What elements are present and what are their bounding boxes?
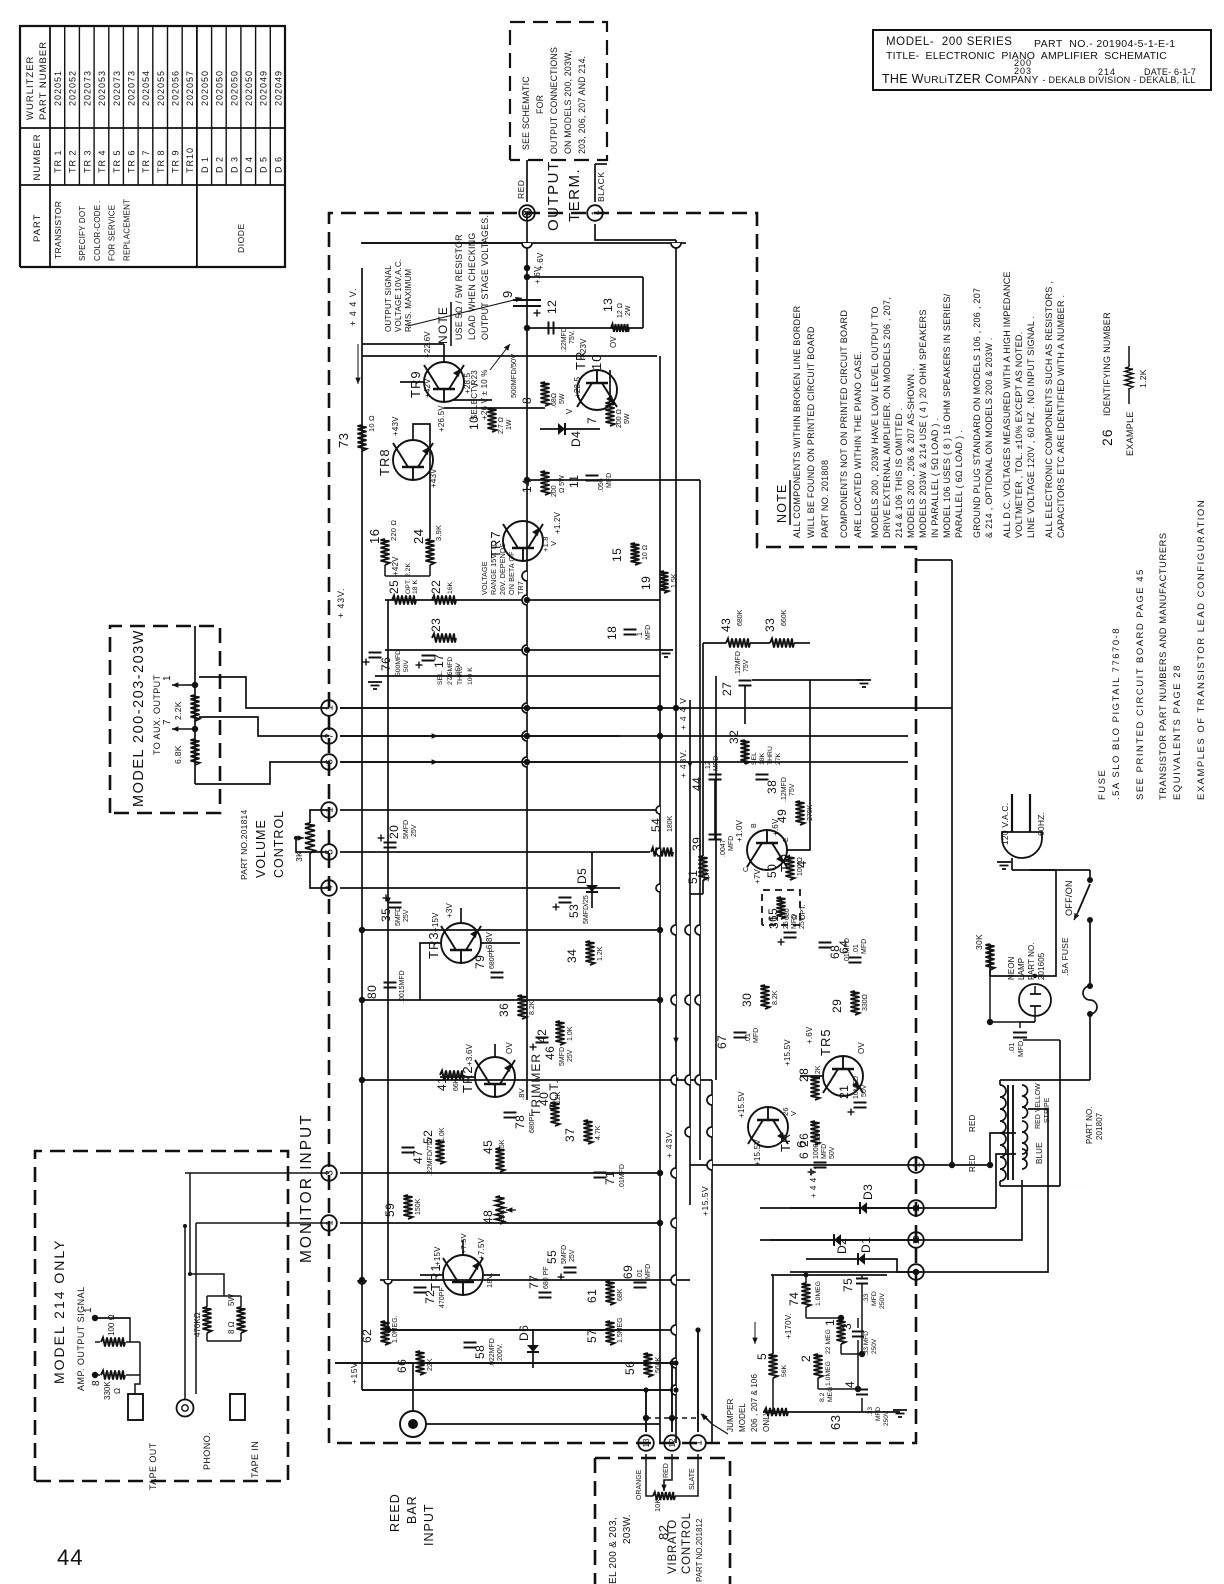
svg-text:.8V: .8V xyxy=(517,1088,526,1100)
svg-text:D1: D1 xyxy=(859,1237,873,1253)
svg-text:TAPE IN: TAPE IN xyxy=(250,1441,260,1478)
svg-text:23: 23 xyxy=(429,618,443,632)
svg-text:V: V xyxy=(471,382,480,388)
svg-text:1: 1 xyxy=(694,1440,705,1446)
svg-text:202073: 202073 xyxy=(127,70,137,106)
svg-text:8.2K: 8.2K xyxy=(529,1000,536,1015)
svg-text:25MFD: 25MFD xyxy=(447,657,454,679)
svg-text:+7.5V: +7.5V xyxy=(477,1237,486,1260)
svg-text:1.0MEG: 1.0MEG xyxy=(825,1361,832,1386)
svg-text:WURLITZER: WURLITZER xyxy=(25,56,36,120)
svg-text:+15.5V: +15.5V xyxy=(700,1186,710,1216)
svg-text:75V: 75V xyxy=(789,783,796,796)
svg-text:MONITOR INPUT: MONITOR INPUT xyxy=(298,1113,315,1263)
svg-text:250V: 250V xyxy=(871,1338,878,1354)
svg-text:71: 71 xyxy=(603,1171,617,1185)
svg-text:FOR SERVICE: FOR SERVICE xyxy=(108,205,117,261)
svg-text:10K: 10K xyxy=(653,1499,662,1512)
svg-text:COLOR-CODE .: COLOR-CODE . xyxy=(93,200,102,261)
svg-text:OUTPUT: OUTPUT xyxy=(545,160,562,231)
svg-text:TRANSISTOR PART NUMBERS AND: TRANSISTOR PART NUMBERS AND MANUFACTURER… xyxy=(1158,532,1168,800)
svg-text:1: 1 xyxy=(162,675,173,681)
svg-text:330Ω: 330Ω xyxy=(862,994,869,1011)
svg-text:52: 52 xyxy=(421,1130,435,1144)
svg-text:4: 4 xyxy=(843,1381,857,1388)
svg-text:RANGE 15V. TO: RANGE 15V. TO xyxy=(489,540,498,595)
svg-text:MFD: MFD xyxy=(1016,1040,1025,1057)
svg-text:15K: 15K xyxy=(499,1139,506,1152)
svg-text:EL 200 & 203,: EL 200 & 203, xyxy=(608,1517,619,1584)
svg-text:TR 3: TR 3 xyxy=(82,149,92,173)
svg-text:202073: 202073 xyxy=(112,70,122,106)
svg-text:76: 76 xyxy=(379,657,393,671)
svg-text:202049: 202049 xyxy=(273,70,283,106)
svg-text:+42V: +42V xyxy=(423,378,432,398)
svg-text:ALL ELECTRONIC COMPONENTS S: ALL ELECTRONIC COMPONENTS SUCH AS RESIST… xyxy=(1044,281,1054,538)
svg-text:OV: OV xyxy=(609,336,618,348)
svg-text:203, 206, 207 AND 214.: 203, 206, 207 AND 214. xyxy=(577,56,587,154)
svg-text:18 K: 18 K xyxy=(412,580,419,594)
svg-text:22 MEG: 22 MEG xyxy=(825,1329,832,1354)
svg-text:27: 27 xyxy=(720,682,734,696)
svg-text:64: 64 xyxy=(837,940,851,954)
svg-text:73: 73 xyxy=(336,433,351,448)
svg-text:ON MODELS 200, 203W,: ON MODELS 200, 203W, xyxy=(563,50,573,154)
svg-text:63: 63 xyxy=(828,1415,843,1430)
svg-text:+22.6V: +22.6V xyxy=(423,331,432,358)
svg-text:9: 9 xyxy=(500,290,515,298)
svg-text:202050: 202050 xyxy=(215,70,225,106)
svg-text:202049: 202049 xyxy=(259,70,269,106)
svg-text:5W: 5W xyxy=(559,393,566,404)
svg-text:500MFD/50V: 500MFD/50V xyxy=(509,354,518,398)
svg-text:PART: PART xyxy=(32,214,43,242)
svg-text:ORANGE: ORANGE xyxy=(636,1469,643,1500)
svg-text:+.6V: +.6V xyxy=(805,1026,814,1044)
svg-text:+ 4 4 V: + 4 4 V xyxy=(678,697,688,730)
svg-text:+.6V: +.6V xyxy=(533,266,542,284)
svg-text:TR 6: TR 6 xyxy=(127,149,137,173)
svg-text:202055: 202055 xyxy=(156,70,166,106)
svg-text:+1.0V: +1.0V xyxy=(735,819,744,842)
svg-text:16: 16 xyxy=(367,529,382,544)
svg-text:7: 7 xyxy=(162,719,173,725)
svg-text:5MFD/25: 5MFD/25 xyxy=(583,895,590,924)
svg-text:MFD: MFD xyxy=(871,1291,878,1306)
svg-text:74: 74 xyxy=(787,1292,801,1306)
svg-text:1000: 1000 xyxy=(813,1143,820,1159)
svg-text:D 2: D 2 xyxy=(215,156,225,173)
svg-text:SPECIFY DOT: SPECIFY DOT xyxy=(78,206,87,261)
svg-text:25V: 25V xyxy=(567,1049,574,1062)
svg-text:TR3: TR3 xyxy=(426,931,441,959)
svg-text:TRANSISTOR: TRANSISTOR xyxy=(53,201,63,259)
svg-text:1.0K: 1.0K xyxy=(567,1026,574,1041)
svg-text:LINE VOLTAGE 120V , 60 HZ .: LINE VOLTAGE 120V , 60 HZ . NO INPUT SIG… xyxy=(1026,316,1036,538)
svg-text:220 Ω: 220 Ω xyxy=(389,520,398,541)
svg-text:PART NO.: PART NO. xyxy=(1085,1106,1094,1144)
svg-text:POT.: POT. xyxy=(547,1079,561,1110)
svg-text:CAPACITORS ETC ARE IDENTIF: CAPACITORS ETC ARE IDENTIFIED WITH A NUM… xyxy=(1056,295,1066,538)
svg-text:8 Ω: 8 Ω xyxy=(227,1321,236,1334)
svg-text:5MFD: 5MFD xyxy=(403,820,410,839)
svg-text:60HZ.: 60HZ. xyxy=(1036,812,1046,836)
svg-text:.01: .01 xyxy=(745,1033,752,1043)
svg-text:8.2K: 8.2K xyxy=(772,990,779,1005)
svg-text:25: 25 xyxy=(387,580,401,594)
svg-text:D6: D6 xyxy=(517,1325,531,1341)
svg-text:RMS. MAXIMUM: RMS. MAXIMUM xyxy=(404,269,413,332)
svg-text:VOLTMETER , TOL. ±10%: VOLTMETER , TOL. ±10% EXCEPT AS NOTED. xyxy=(1014,332,1024,538)
svg-text:VOLTAGE 10V,A.C.: VOLTAGE 10V,A.C. xyxy=(394,259,403,332)
svg-text:.33: .33 xyxy=(867,1407,874,1416)
svg-text:.01MFD: .01MFD xyxy=(619,1164,626,1189)
svg-text:1.0MEG: 1.0MEG xyxy=(815,1281,822,1306)
svg-text:OPT. 2.2K: OPT. 2.2K xyxy=(405,563,412,594)
svg-text:D 3: D 3 xyxy=(229,156,239,173)
svg-text:29: 29 xyxy=(830,999,844,1013)
svg-text:.68Ω: .68Ω xyxy=(551,393,558,408)
svg-text:RED: RED xyxy=(516,180,526,199)
svg-text:2W: 2W xyxy=(625,305,632,316)
svg-text:TERM.: TERM. xyxy=(566,168,583,222)
svg-text:120 V.A.C.: 120 V.A.C. xyxy=(1000,803,1010,845)
svg-text:75V: 75V xyxy=(743,659,750,672)
svg-text:33: 33 xyxy=(763,618,777,632)
svg-text:MEG: MEG xyxy=(827,1387,834,1402)
svg-text:36: 36 xyxy=(497,1003,511,1017)
svg-text:RED: RED xyxy=(968,1114,977,1132)
svg-text:MFD: MFD xyxy=(753,1028,760,1043)
svg-text:1.2K: 1.2K xyxy=(1138,369,1148,388)
svg-text:31: 31 xyxy=(767,915,781,929)
svg-text:67: 67 xyxy=(715,1035,729,1049)
svg-text:10K: 10K xyxy=(704,869,711,882)
svg-text:+170V.: +170V. xyxy=(784,1313,793,1339)
svg-text:ALL D.C. VOLTAGES MEASURED: ALL D.C. VOLTAGES MEASURED WITH A HIGH I… xyxy=(1002,271,1012,538)
svg-text:43: 43 xyxy=(719,618,733,632)
svg-text:.5A FUSE: .5A FUSE xyxy=(1060,937,1070,976)
svg-text:202057: 202057 xyxy=(185,70,195,106)
svg-text:WILL BE FOUND ON PRINTED: WILL BE FOUND ON PRINTED CIRCUIT BOARD xyxy=(806,326,816,538)
svg-text:.22MFD: .22MFD xyxy=(561,327,568,352)
svg-text:25V: 25V xyxy=(455,662,462,675)
svg-text:OUTPUT STAGE VOLTAGES.: OUTPUT STAGE VOLTAGES. xyxy=(480,215,490,340)
svg-text:TR5: TR5 xyxy=(818,1028,833,1056)
svg-text:100 Ω: 100 Ω xyxy=(797,857,804,876)
svg-text:12 Ω: 12 Ω xyxy=(617,303,624,318)
svg-text:ON BETA OF: ON BETA OF xyxy=(507,551,516,595)
svg-text:.1: .1 xyxy=(637,632,644,638)
svg-text:202051: 202051 xyxy=(53,70,63,106)
svg-text:17: 17 xyxy=(432,654,446,668)
svg-text:78: 78 xyxy=(513,1115,527,1129)
svg-text:18K: 18K xyxy=(759,752,766,765)
svg-text:10 Ω: 10 Ω xyxy=(642,545,649,560)
svg-text:TRIMMER: TRIMMER xyxy=(529,1053,543,1116)
svg-text:59: 59 xyxy=(383,1203,397,1217)
svg-text:200: 200 xyxy=(551,485,558,497)
svg-text:TR 1: TR 1 xyxy=(53,149,63,173)
svg-text:MODEL 200-203-203W: MODEL 200-203-203W xyxy=(131,629,147,807)
svg-text:D4: D4 xyxy=(569,431,583,447)
svg-text:BLACK: BLACK xyxy=(596,172,606,202)
svg-text:2: 2 xyxy=(799,1355,813,1362)
svg-text:MFD: MFD xyxy=(645,1264,652,1279)
svg-text:50: 50 xyxy=(765,864,779,878)
svg-text:.12MFD: .12MFD xyxy=(735,651,742,676)
svg-text:+ 4 4 V.: + 4 4 V. xyxy=(348,288,358,326)
svg-text:TR7: TR7 xyxy=(516,581,525,595)
svg-text:ARE LOCATED WITHIN THE PIA: ARE LOCATED WITHIN THE PIANO CASE. xyxy=(853,351,863,538)
svg-text:Ω: Ω xyxy=(113,1388,122,1394)
svg-text:470KΩ: 470KΩ xyxy=(193,1312,202,1337)
svg-text:30K: 30K xyxy=(974,934,984,950)
svg-text:2.2K: 2.2K xyxy=(173,701,183,720)
svg-text:22K: 22K xyxy=(427,1358,434,1371)
svg-text:44: 44 xyxy=(690,777,704,791)
svg-text:+3.6V: +3.6V xyxy=(465,1043,474,1066)
svg-text:MFD: MFD xyxy=(645,625,652,640)
svg-text:TR 5: TR 5 xyxy=(112,149,122,173)
svg-text:1.5K: 1.5K xyxy=(671,573,678,588)
svg-text:TR 8: TR 8 xyxy=(156,149,166,173)
svg-text:51: 51 xyxy=(686,870,700,884)
svg-text:EXAMPLES OF TRANSISTOR LEAD: EXAMPLES OF TRANSISTOR LEAD CONFIGURATIO… xyxy=(1196,499,1207,800)
svg-text:27K: 27K xyxy=(775,752,782,765)
svg-text:10MFD: 10MFD xyxy=(853,1076,860,1099)
svg-text:PART NO.201814: PART NO.201814 xyxy=(239,810,249,880)
svg-text:34: 34 xyxy=(565,949,579,963)
svg-text:VOLUME: VOLUME xyxy=(254,819,268,878)
svg-text:2.7 Ω: 2.7 Ω xyxy=(498,417,505,434)
svg-text:.33: .33 xyxy=(863,1293,870,1303)
svg-text:8: 8 xyxy=(91,1380,102,1386)
svg-text:MFD: MFD xyxy=(791,914,798,929)
svg-text:CONTROL: CONTROL xyxy=(272,810,286,878)
svg-text:.12MFD: .12MFD xyxy=(781,777,788,802)
svg-text:GROUND PLUG STANDARD ON MO: GROUND PLUG STANDARD ON MODELS 106 , 206… xyxy=(972,288,982,538)
svg-text:+43V: +43V xyxy=(429,468,438,488)
svg-text:REED: REED xyxy=(388,1493,402,1532)
svg-text:MFD: MFD xyxy=(821,1144,828,1159)
svg-text:E: E xyxy=(783,837,790,842)
svg-text:5MFD: 5MFD xyxy=(561,1245,568,1264)
svg-text:D5: D5 xyxy=(575,868,589,884)
svg-text:.5A SLO BLO PIGTAIL 77670-: .5A SLO BLO PIGTAIL 77670-8 xyxy=(1111,627,1122,800)
svg-text:30: 30 xyxy=(740,993,754,1007)
svg-text:25K: 25K xyxy=(499,1209,506,1222)
svg-text:26: 26 xyxy=(1099,428,1115,446)
svg-text:TR10: TR10 xyxy=(185,147,195,173)
svg-text:26V. DEPENDS: 26V. DEPENDS xyxy=(498,543,507,595)
svg-text:1W: 1W xyxy=(506,419,513,430)
svg-text:DRIVE EXTERNAL AMPLIFIER. O: DRIVE EXTERNAL AMPLIFIER. ON MODELS 206 … xyxy=(882,297,892,538)
svg-text:202056: 202056 xyxy=(171,70,181,106)
svg-text:+42V: +42V xyxy=(391,556,400,576)
svg-text:PHONO.: PHONO. xyxy=(202,1432,212,1470)
svg-text:INPUT: INPUT xyxy=(422,1504,436,1547)
svg-text:56K: 56K xyxy=(781,1364,788,1377)
svg-text:.01: .01 xyxy=(637,1269,644,1279)
svg-text:SEL: SEL xyxy=(751,752,758,765)
svg-text:62: 62 xyxy=(360,1329,374,1343)
svg-text:V: V xyxy=(789,1111,798,1116)
svg-text:54: 54 xyxy=(649,818,663,832)
svg-text:COMPONENTS NOT ON PRINTED: COMPONENTS NOT ON PRINTED CIRCUIT BOARD xyxy=(839,310,849,538)
svg-text:MFD: MFD xyxy=(875,1407,882,1421)
svg-text:46: 46 xyxy=(543,1046,557,1060)
svg-text:1: 1 xyxy=(823,1319,837,1326)
svg-text:500MFD: 500MFD xyxy=(395,650,402,676)
svg-text:13: 13 xyxy=(642,1438,651,1447)
svg-text:5: 5 xyxy=(755,1353,769,1360)
svg-text:OUTPUT SIGNAL: OUTPUT SIGNAL xyxy=(384,265,393,332)
svg-text:D 4: D 4 xyxy=(244,156,254,173)
svg-text:SEE PRINTED CIRCUIT BOARD: SEE PRINTED CIRCUIT BOARD PAGE 45 xyxy=(1135,568,1146,800)
svg-text:TR: TR xyxy=(778,1133,793,1152)
svg-text:48: 48 xyxy=(481,1210,495,1224)
svg-text:MFD: MFD xyxy=(728,836,735,851)
svg-text:25V: 25V xyxy=(799,916,806,929)
svg-text:+.6V: +.6V xyxy=(771,818,780,836)
svg-text:660K: 660K xyxy=(781,609,788,626)
svg-text:V: V xyxy=(549,541,558,546)
svg-text:5MFD: 5MFD xyxy=(395,907,402,926)
svg-text:3.9K: 3.9K xyxy=(434,525,443,541)
svg-text:79: 79 xyxy=(473,955,487,969)
svg-text:206 , 207 & 106: 206 , 207 & 106 xyxy=(750,1374,759,1432)
svg-text:202073: 202073 xyxy=(82,70,92,106)
svg-text:EXAMPLE: EXAMPLE xyxy=(1125,411,1135,456)
svg-text:26: 26 xyxy=(797,1133,811,1147)
svg-text:38: 38 xyxy=(765,780,779,794)
svg-text:7: 7 xyxy=(585,417,599,424)
svg-text:55: 55 xyxy=(545,1250,559,1264)
svg-text:24: 24 xyxy=(411,529,426,544)
svg-text:SEE SCHEMATIC: SEE SCHEMATIC xyxy=(521,76,531,150)
svg-text:+1.2V: +1.2V xyxy=(553,511,562,534)
svg-text:22: 22 xyxy=(429,580,443,594)
svg-text:+26 V ± 10 %: +26 V ± 10 % xyxy=(480,369,489,420)
svg-text:202050: 202050 xyxy=(229,70,239,106)
svg-text:& 214 , OPTIONAL ON MODELS: & 214 , OPTIONAL ON MODELS 200 & 203W . xyxy=(984,337,994,538)
svg-text:100 K: 100 K xyxy=(467,667,474,685)
svg-text:680: 680 xyxy=(784,908,791,920)
svg-text:1.2K: 1.2K xyxy=(597,946,604,961)
svg-text:37: 37 xyxy=(563,1128,577,1142)
svg-text:13: 13 xyxy=(601,298,615,312)
svg-text:OV: OV xyxy=(857,1042,866,1054)
svg-text:18: 18 xyxy=(605,626,619,640)
svg-text:EQUIVALENTS PAGE 28: EQUIVALENTS PAGE 28 xyxy=(1172,664,1183,800)
svg-text:B: B xyxy=(751,823,758,828)
svg-text:BLUE: BLUE xyxy=(1035,1142,1044,1164)
svg-text:Ω 5W: Ω 5W xyxy=(559,475,566,493)
svg-text:+23V: +23V xyxy=(579,338,588,358)
svg-text:OV: OV xyxy=(505,1042,514,1054)
svg-text:SLATE: SLATE xyxy=(689,1468,696,1490)
svg-text:MODELS 203W & 214 USE ( 4: MODELS 203W & 214 USE ( 4 ) 20 OHM SPEAK… xyxy=(918,309,928,538)
svg-text:MODELS 200 , 203W HAVE LOW: MODELS 200 , 203W HAVE LOW LEVEL OUTPUT … xyxy=(870,306,880,538)
svg-text:VOLTAGE: VOLTAGE xyxy=(480,561,489,595)
svg-text:50V: 50V xyxy=(829,1146,836,1159)
svg-text:OUTPUT CONNECTIONS: OUTPUT CONNECTIONS xyxy=(549,47,559,154)
svg-text:.0015MFD: .0015MFD xyxy=(399,970,406,1003)
svg-text:72: 72 xyxy=(423,1290,437,1304)
svg-text:250V: 250V xyxy=(883,1410,890,1426)
svg-text:.01: .01 xyxy=(1007,1043,1016,1053)
svg-text:LOAD WHEN CHECKING: LOAD WHEN CHECKING xyxy=(467,232,477,340)
svg-text:250V: 250V xyxy=(879,1293,886,1309)
svg-text:200V.: 200V. xyxy=(497,1343,504,1361)
svg-text:FUSE: FUSE xyxy=(1097,769,1108,800)
svg-text:680 PF: 680 PF xyxy=(543,1266,550,1289)
svg-text:IDENTIFYING NUMBER: IDENTIFYING NUMBER xyxy=(1102,312,1112,416)
svg-text:69: 69 xyxy=(621,1265,635,1279)
svg-text:6: 6 xyxy=(797,1152,811,1159)
svg-text:75V.: 75V. xyxy=(569,330,576,344)
svg-text:202050: 202050 xyxy=(200,70,210,106)
svg-text:16K: 16K xyxy=(447,581,454,594)
svg-text:47: 47 xyxy=(411,1150,425,1164)
svg-text:25V: 25V xyxy=(411,824,418,837)
svg-text:V: V xyxy=(565,408,574,414)
svg-text:21: 21 xyxy=(837,1085,851,1099)
svg-text:AMP. OUTPUT SIGNAL: AMP. OUTPUT SIGNAL xyxy=(76,1286,86,1391)
svg-text:D 5: D 5 xyxy=(259,156,269,173)
svg-text:TAPE OUT: TAPE OUT xyxy=(148,1442,158,1490)
svg-text:+ 43V.: + 43V. xyxy=(336,588,346,618)
svg-text:201807: 201807 xyxy=(1095,1112,1104,1140)
svg-text:+ 43V.: + 43V. xyxy=(664,1129,674,1158)
svg-text:SEL.: SEL. xyxy=(437,670,444,685)
svg-text:PART NO. 201808: PART NO. 201808 xyxy=(820,460,830,538)
svg-text:75: 75 xyxy=(841,1278,855,1292)
svg-text:RED: RED xyxy=(663,1463,670,1478)
svg-text:+15V: +15V xyxy=(349,1362,359,1384)
svg-text:NOTE: NOTE xyxy=(775,483,789,523)
svg-text:REPLACEMENT: REPLACEMENT xyxy=(122,199,131,261)
svg-text:11: 11 xyxy=(567,475,581,488)
svg-text:680K: 680K xyxy=(737,609,744,626)
svg-text:28: 28 xyxy=(797,1068,811,1082)
svg-text:D 6: D 6 xyxy=(273,156,283,173)
svg-text:NOTE: NOTE xyxy=(436,306,450,344)
svg-text:560K: 560K xyxy=(655,1356,662,1373)
svg-text:1: 1 xyxy=(591,210,602,216)
svg-text:RED YELLOW: RED YELLOW xyxy=(1035,1083,1042,1129)
svg-text:53: 53 xyxy=(567,904,581,918)
svg-text:4.7K: 4.7K xyxy=(595,1125,602,1140)
svg-text:35: 35 xyxy=(379,908,393,922)
svg-text:50V: 50V xyxy=(403,659,410,672)
svg-text:25V: 25V xyxy=(403,909,410,922)
svg-text:OFF/ON: OFF/ON xyxy=(1064,880,1074,916)
svg-text:MFD: MFD xyxy=(861,939,868,954)
svg-text:TR9: TR9 xyxy=(408,370,423,398)
svg-text:25: 25 xyxy=(783,921,790,929)
svg-text:3: 3 xyxy=(840,1323,854,1330)
svg-text:TR 9: TR 9 xyxy=(171,149,181,173)
svg-text:TR 4: TR 4 xyxy=(97,149,107,173)
svg-text:VIBRATO: VIBRATO xyxy=(667,1519,679,1574)
svg-text:15: 15 xyxy=(610,548,624,562)
svg-text:NUMBER: NUMBER xyxy=(32,133,43,180)
svg-text:TR 2: TR 2 xyxy=(68,149,78,173)
svg-text:203W.: 203W. xyxy=(622,1514,633,1544)
svg-text:8.2: 8.2 xyxy=(819,1392,826,1402)
